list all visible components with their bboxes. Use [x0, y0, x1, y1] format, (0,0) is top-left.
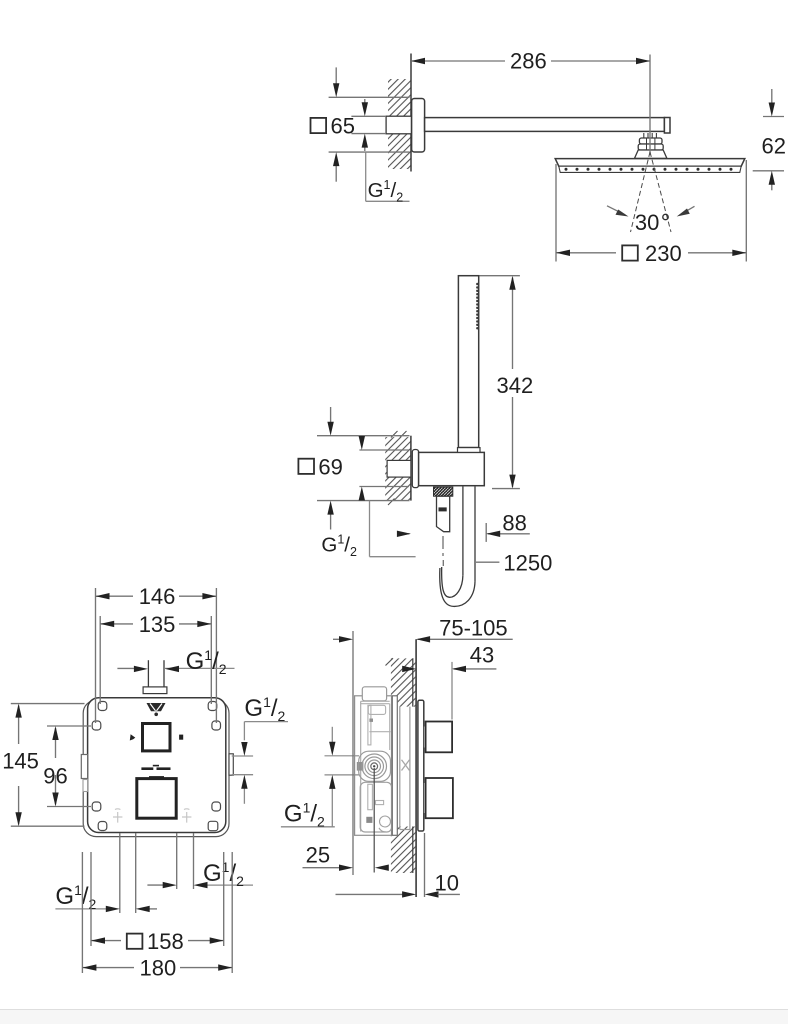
wall hatch upper band [391, 658, 416, 706]
svg-text:180: 180 [140, 956, 177, 981]
label G 1/2 side view [281, 727, 335, 827]
svg-text:G1/2: G1/2 [186, 647, 227, 677]
inner shelf line [369, 731, 390, 733]
lower chamber [360, 782, 392, 832]
box front plate [88, 698, 226, 833]
label G 1/2 right stub [232, 722, 288, 804]
connector seam mark [439, 507, 447, 511]
svg-text:342: 342 [497, 373, 534, 398]
hose U bend [442, 567, 463, 597]
dimension square65 [329, 67, 410, 181]
lower dark block [366, 817, 372, 823]
dimension 145 [11, 704, 85, 827]
head swivel bell [635, 150, 667, 158]
ghost outlet marks [113, 809, 191, 823]
svg-text:88: 88 [502, 511, 526, 536]
box top tab [362, 687, 386, 701]
svg-text:30: 30 [635, 210, 659, 235]
volume square top tab [149, 776, 164, 778]
label G 1/2 top inlet [117, 667, 134, 669]
head nozzle dots [565, 168, 733, 171]
corner screw slots [92, 702, 220, 831]
svg-text:G1/2: G1/2 [244, 694, 285, 724]
hose right limb [462, 487, 464, 576]
head plate top [555, 159, 745, 167]
svg-text:69: 69 [318, 454, 342, 479]
trim plate [418, 700, 424, 831]
sleeve tube [400, 707, 410, 830]
cartridge centerline down [373, 768, 375, 873]
dimension 135 [100, 616, 211, 704]
cartridge housing [359, 751, 391, 781]
arm union block in wall [386, 116, 411, 134]
wall face line [415, 639, 417, 897]
tile back line lower [412, 827, 414, 874]
wall line middle figure [410, 436, 412, 501]
thermostat square [143, 724, 171, 751]
connector nut facets [646, 139, 648, 150]
hatch stray stroke [386, 658, 394, 665]
dimension square69 [317, 407, 410, 530]
upper handle step [424, 727, 426, 748]
cartridge rings [362, 754, 387, 779]
wall hatch middle figure [385, 437, 411, 501]
head connector nut [639, 138, 662, 144]
dimension 180 [82, 852, 232, 973]
svg-text:75-105: 75-105 [439, 616, 508, 641]
svg-text:146: 146 [139, 584, 176, 609]
outlet thread block [434, 487, 453, 496]
dimension 75-105 [333, 631, 513, 875]
outlet elbow arc [379, 828, 386, 832]
head connector ring [638, 144, 663, 150]
hatch stray strokes middle [388, 431, 407, 505]
small dark block upper [369, 719, 373, 722]
right side stub [229, 754, 233, 775]
hand shower nozzle strip [476, 284, 478, 331]
lower handle [426, 778, 453, 818]
holder wall flange [412, 450, 418, 488]
svg-text:145: 145 [2, 749, 39, 774]
holder body [419, 452, 485, 485]
lower small tab [376, 801, 384, 805]
svg-text:286: 286 [510, 49, 547, 74]
tile back line upper [412, 658, 414, 706]
label G 1/2 top figure [366, 152, 410, 201]
label 1250 leader [476, 561, 499, 563]
box side body [355, 696, 392, 836]
spray angle arrows [607, 206, 625, 215]
hose centerline dash-dot [442, 536, 444, 566]
volume square [137, 779, 176, 819]
lower handle step [424, 783, 426, 813]
axis cross mark [402, 760, 410, 771]
svg-text:10: 10 [435, 871, 459, 896]
holder collar [458, 448, 481, 453]
svg-text:135: 135 [139, 612, 176, 637]
bottom outlet extension lines [120, 833, 194, 913]
box body behind [83, 700, 229, 837]
mounting frame plate [392, 696, 397, 836]
wall hatch top figure [388, 79, 411, 169]
svg-text:65: 65 [331, 114, 355, 139]
head plate face [559, 166, 741, 172]
svg-text:G1/2: G1/2 [321, 532, 357, 559]
dimension 43 [451, 662, 453, 720]
wall line top figure [410, 54, 412, 172]
arm wall flange [412, 99, 425, 153]
upper handle [426, 722, 453, 753]
dimension 62 [753, 89, 784, 190]
svg-text:G1/2: G1/2 [284, 800, 325, 830]
dimension square158 [91, 852, 224, 946]
svg-text:25: 25 [306, 843, 330, 868]
dimension 286 [411, 55, 650, 155]
inlet seat [357, 762, 364, 771]
label G 1/2 bottom left outlet [55, 908, 106, 910]
left side stub lower [83, 780, 88, 792]
right square dot [179, 735, 183, 740]
shower arm tube [425, 118, 665, 132]
svg-text:230: 230 [645, 241, 682, 266]
spray angle dashed lines [631, 152, 672, 232]
inlet elbow upper [368, 705, 385, 714]
svg-text:158: 158 [147, 929, 184, 954]
hand shower stick [458, 276, 478, 448]
box inner left wall [360, 701, 362, 831]
dimension 10 [424, 833, 426, 897]
inner column upper [368, 705, 371, 745]
footer strip [0, 1009, 788, 1024]
outlet elbow circle [380, 816, 391, 827]
inlet pipe lines [325, 756, 360, 775]
dimension 146 [96, 588, 217, 723]
holder union block in wall [387, 460, 411, 477]
label G 1/2 middle figure [370, 501, 416, 557]
lower inner strip [368, 784, 373, 809]
left comma mark [130, 734, 136, 740]
box inner right wall [389, 704, 391, 750]
svg-text:G1/2: G1/2 [368, 178, 404, 205]
svg-text:96: 96 [43, 764, 67, 789]
dimension 342 [480, 276, 520, 489]
dimension 96 [47, 726, 91, 807]
left side stub [81, 755, 87, 779]
top inlet base [143, 687, 167, 694]
wall hatch lower band [391, 827, 416, 874]
box top band [361, 700, 390, 702]
outlet connector [437, 496, 450, 532]
label G 1/2 bottom right outlet [147, 884, 163, 886]
dimension square230 [556, 160, 746, 262]
dimension 88 [397, 523, 530, 542]
middle dashes [141, 767, 153, 770]
svg-text:43: 43 [470, 643, 494, 668]
head connector thread [644, 133, 657, 138]
svg-text:62: 62 [762, 133, 786, 158]
svg-text:1250: 1250 [503, 550, 552, 575]
dimension 25 [303, 867, 341, 869]
top outlet fan mark [147, 703, 166, 711]
top inlet pipe [148, 660, 164, 687]
arm end cap [664, 118, 670, 134]
